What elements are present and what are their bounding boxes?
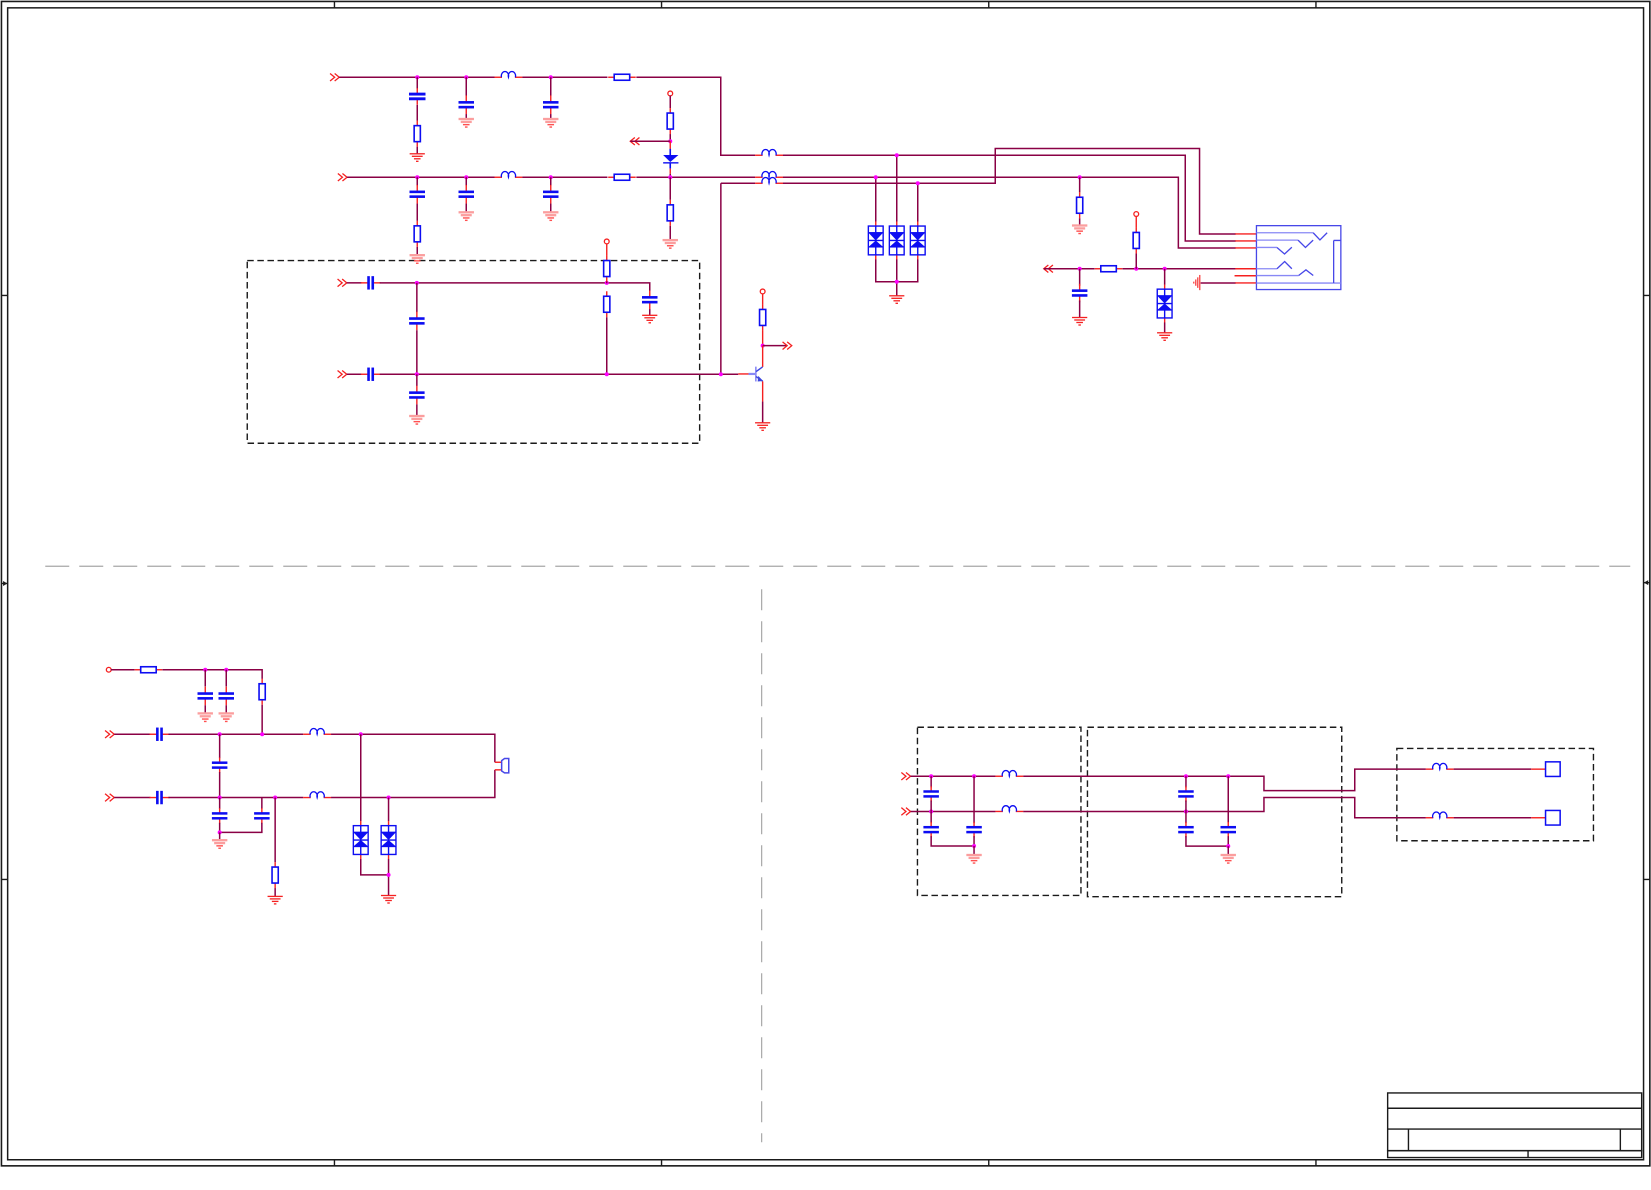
junction xyxy=(1078,267,1082,271)
ground GS6 xyxy=(663,239,678,249)
junction xyxy=(549,175,553,179)
wire C3 to ground xyxy=(550,114,552,118)
wire cap C5 stub xyxy=(465,177,467,186)
wire R15 to ground xyxy=(274,888,276,896)
junction xyxy=(1184,774,1188,778)
ground GS2 xyxy=(543,118,558,128)
port P11 xyxy=(901,808,910,816)
inductor L10 xyxy=(995,806,1023,812)
section divider vertical xyxy=(761,589,763,1142)
wire cap C25 column xyxy=(1227,776,1229,823)
wire cap C10 stub xyxy=(416,283,418,312)
junction xyxy=(1078,175,1082,179)
port P2 input xyxy=(338,173,347,181)
wire TVS to ground xyxy=(1164,322,1166,332)
wire tvs1 to rail xyxy=(876,259,897,281)
dashed box filter A xyxy=(247,261,699,444)
wire rowC vertical from base net xyxy=(720,183,722,374)
inductor L2 xyxy=(495,171,523,177)
resistor R3 xyxy=(608,174,636,180)
wire row1 to rowA corner xyxy=(636,77,755,155)
transistor Q1 xyxy=(749,367,764,382)
wire spk top stub xyxy=(495,761,502,763)
junction xyxy=(719,372,723,376)
inductor L4 xyxy=(755,171,783,177)
wire C21 to rail xyxy=(931,836,974,846)
wire cap C13 stub xyxy=(204,670,206,687)
wire R5 to node xyxy=(669,134,671,141)
wire br row2 c xyxy=(1454,817,1532,819)
wire boxA row2 a xyxy=(347,373,362,375)
wire tvs1 column xyxy=(875,177,877,221)
wire cap C20 stub xyxy=(930,776,932,787)
wire pin5 stub xyxy=(1235,275,1257,277)
capacitor C14 xyxy=(219,687,235,706)
capacitor C13 xyxy=(198,687,214,706)
pin VCC xyxy=(760,289,765,294)
wire boxA row1 b xyxy=(380,283,650,291)
capacitor C17 xyxy=(150,791,170,804)
inductor L1 xyxy=(495,71,523,77)
wire cap C2 stub xyxy=(465,77,467,95)
capacitor C16 xyxy=(212,757,228,772)
terminal T1 xyxy=(1546,762,1561,777)
wire C25 to rail xyxy=(1227,836,1229,846)
junction xyxy=(1134,267,1138,271)
resistor R1 xyxy=(608,74,636,80)
wire cap C23 stub xyxy=(1185,776,1187,787)
wire rowB pin stub xyxy=(1235,247,1256,249)
resistor R5 xyxy=(667,108,673,134)
junction xyxy=(415,75,419,79)
pin bias xyxy=(604,239,609,244)
junction xyxy=(387,873,391,877)
junction xyxy=(464,175,468,179)
wire tvs4 to rail xyxy=(361,859,389,875)
wire C12 to ground xyxy=(416,404,418,415)
resistor R9 xyxy=(1133,227,1139,253)
wire collector xyxy=(762,346,764,367)
junction xyxy=(415,175,419,179)
pin supply xyxy=(668,91,673,96)
wire C20 to row2 xyxy=(930,800,932,811)
wire rowA pin stub xyxy=(1235,240,1256,242)
wire row2 a xyxy=(347,176,495,178)
title block xyxy=(1388,1093,1642,1158)
junction xyxy=(415,372,419,376)
wire pin to R10 xyxy=(606,243,608,255)
wire node to TVS xyxy=(1164,269,1166,285)
dashed box filter B2 xyxy=(1087,727,1341,896)
pin pullup xyxy=(1134,212,1139,217)
wire p4 a xyxy=(1044,268,1095,270)
wire tvs5 column xyxy=(388,798,390,822)
wire br row2 b xyxy=(1023,797,1426,817)
frame center arrow right xyxy=(1644,580,1650,585)
port P5 xyxy=(338,279,347,287)
wire node to port xyxy=(763,345,788,347)
wire D1 to row2 xyxy=(669,174,671,178)
speaker LS1 xyxy=(502,759,509,773)
junction xyxy=(1226,844,1230,848)
frame zone ticks top xyxy=(334,1,1315,7)
wire C6 to ground xyxy=(550,204,552,212)
wire tvs3 column xyxy=(917,183,919,221)
resistor R11 xyxy=(604,291,610,317)
junction xyxy=(260,732,264,736)
chassis ground xyxy=(1193,275,1200,290)
port P6 xyxy=(338,370,347,378)
junction xyxy=(972,844,976,848)
ground GR3 xyxy=(1072,317,1087,326)
dashed box output B3 xyxy=(1397,748,1594,840)
wire cap C12 stub xyxy=(416,374,418,386)
junction xyxy=(1184,809,1188,813)
ground GS10 xyxy=(219,712,234,722)
resistor R6 xyxy=(667,200,673,226)
wire bl top xyxy=(162,670,262,679)
capacitor C3 xyxy=(543,95,559,114)
TVS D2 xyxy=(868,221,883,259)
capacitor C18 xyxy=(212,808,228,823)
capacitor C20 xyxy=(923,786,939,801)
wire tvs5 to ground xyxy=(388,859,390,895)
inductor L9 xyxy=(1426,763,1454,769)
wire cap C16 stub xyxy=(219,734,221,758)
junction xyxy=(1163,267,1167,271)
wire bl row2 a xyxy=(114,797,150,799)
wire bl row1 a xyxy=(114,733,150,735)
wire R7 to ground xyxy=(1079,218,1081,224)
junction xyxy=(218,732,222,736)
capacitor C23 xyxy=(1178,786,1194,801)
wire cap C4 stub xyxy=(416,177,418,186)
wire R12 to node xyxy=(762,330,764,345)
junction xyxy=(874,175,878,179)
wire cap C1 top stub xyxy=(416,77,418,89)
TVS D7 xyxy=(381,821,396,859)
junction xyxy=(273,796,277,800)
TVS D4 xyxy=(910,221,925,259)
wire pin to R12 xyxy=(762,293,764,304)
wire rowC xyxy=(721,182,755,184)
wire tvs2 column xyxy=(896,155,898,221)
capacitor C1 xyxy=(409,88,426,105)
junction xyxy=(218,796,222,800)
resistor R12 xyxy=(760,304,766,330)
port P1 input xyxy=(330,73,339,81)
junction xyxy=(929,809,933,813)
ground GS9 xyxy=(198,712,213,722)
ground GS3 xyxy=(410,254,425,264)
wire bl row1 b xyxy=(168,733,303,735)
wire pin to R13 xyxy=(111,669,135,671)
wire C24 to rail xyxy=(1186,836,1228,846)
wire C16 to row2 xyxy=(219,772,221,798)
wire tvs3 to rail xyxy=(897,259,918,281)
wire term2 stub xyxy=(1531,817,1545,819)
section divider horizontal xyxy=(45,565,1630,567)
junction xyxy=(668,139,672,143)
frame center arrow left xyxy=(1,581,7,586)
capacitor C22 xyxy=(966,822,982,837)
wire R14 to row1 xyxy=(261,705,263,735)
junction xyxy=(605,281,609,285)
resistor R8 xyxy=(1095,266,1123,272)
wire R9 to pin xyxy=(1135,216,1137,227)
ground GR4 xyxy=(1157,332,1172,341)
wire C4 to R4 xyxy=(416,204,418,221)
dashed box filter B1 xyxy=(917,727,1080,895)
ground GS1 xyxy=(459,118,474,128)
junction xyxy=(1226,774,1230,778)
wire rowB to R7 xyxy=(1079,177,1081,192)
ground GR7 xyxy=(268,896,283,905)
pin audio in xyxy=(106,667,111,672)
wire bl row2 b xyxy=(168,797,303,799)
wire node to R6 xyxy=(669,177,671,200)
wire row2 c xyxy=(636,176,755,178)
inductor L8 xyxy=(995,770,1023,776)
wire row1 b xyxy=(522,76,607,78)
terminal T2 xyxy=(1546,810,1561,825)
capacitor C25 xyxy=(1221,822,1237,837)
junction xyxy=(895,280,899,284)
junction xyxy=(359,732,363,736)
connector J1 xyxy=(1256,226,1340,290)
wire br row2 a xyxy=(911,810,996,812)
wire C9 to ground xyxy=(649,309,651,315)
capacitor C19 xyxy=(254,808,270,823)
diode D1 xyxy=(663,141,678,174)
capacitor C10 xyxy=(409,312,425,331)
ground GR1 xyxy=(410,153,425,162)
ground GS7 xyxy=(1072,224,1087,234)
wire row2 to R15 xyxy=(274,798,276,863)
wire cap C19 stub xyxy=(261,798,263,809)
wire spk bottom stub xyxy=(495,769,502,771)
capacitor C8 xyxy=(361,276,381,289)
wire port to node xyxy=(630,140,670,142)
wire C7 to ground xyxy=(1079,300,1081,317)
junction xyxy=(218,830,222,834)
junction xyxy=(203,668,207,672)
wire C10 to row2 xyxy=(416,330,418,374)
junction xyxy=(916,181,920,185)
ground GR8 xyxy=(381,895,396,904)
wire boxA row2 b xyxy=(380,373,739,375)
wire node to R9 xyxy=(1135,253,1137,268)
wire cap C18 stub xyxy=(219,798,221,809)
TVS D5 xyxy=(1157,285,1172,323)
wire C1 to R2 xyxy=(416,105,418,121)
wire R6 to ground xyxy=(669,226,671,239)
capacitor C12 xyxy=(409,386,425,405)
frame zone ticks bottom xyxy=(334,1160,1315,1166)
port P3 control xyxy=(630,137,639,145)
capacitor C6 xyxy=(543,185,559,204)
wire C23 to row2 xyxy=(1185,800,1187,811)
wire term1 stub xyxy=(1531,768,1545,770)
TVS D3 xyxy=(889,221,904,259)
capacitor C5 xyxy=(459,185,475,204)
wire R11 to row2 xyxy=(606,317,608,374)
resistor R15 xyxy=(272,862,278,888)
resistor R14 xyxy=(259,679,265,705)
junction xyxy=(549,75,553,79)
junction xyxy=(387,796,391,800)
wire pin6 xyxy=(1201,282,1236,284)
wire cap C21 stub xyxy=(930,811,932,823)
wire R2 to ground xyxy=(416,147,418,154)
wire bl row1 c xyxy=(331,734,495,762)
wire boxA row1 a xyxy=(347,282,362,284)
ground GR6 xyxy=(755,422,770,431)
wire row2 b xyxy=(522,176,607,178)
junction xyxy=(605,372,609,376)
junction xyxy=(464,75,468,79)
junction xyxy=(761,344,765,348)
port P9 xyxy=(105,794,114,802)
capacitor C21 xyxy=(923,822,939,837)
wire C2 to ground xyxy=(465,114,467,118)
capacitor C15 xyxy=(150,728,170,741)
wire p4 pin stub xyxy=(1235,268,1256,270)
frame zone ticks right xyxy=(1644,295,1650,879)
capacitor C9 xyxy=(642,290,658,309)
inductor L7 xyxy=(303,792,331,798)
junction xyxy=(415,281,419,285)
wire C13 to ground xyxy=(204,705,206,712)
resistor R10 xyxy=(604,256,610,282)
resistor R4 xyxy=(414,221,420,247)
junction xyxy=(668,175,672,179)
ground GS13 xyxy=(1221,854,1236,864)
wire C5 to ground xyxy=(465,204,467,212)
wire C19 to rail xyxy=(220,823,262,833)
wire rowC pin stub xyxy=(1235,233,1256,235)
junction xyxy=(895,153,899,157)
junction xyxy=(224,668,228,672)
capacitor C7 xyxy=(1072,284,1088,303)
wire C18 to rail xyxy=(219,823,221,833)
TVS D6 xyxy=(353,821,368,859)
wire cap C6 stub xyxy=(550,177,552,186)
wire base stub xyxy=(738,373,749,375)
capacitor C4 xyxy=(410,185,426,204)
wire tvs2 to ground xyxy=(896,259,898,295)
junction xyxy=(929,774,933,778)
frame zone ticks left xyxy=(1,295,7,879)
wire cap C22 column xyxy=(973,776,975,823)
capacitor C24 xyxy=(1178,822,1194,837)
wire C14 to ground xyxy=(225,705,227,712)
capacitor C11 xyxy=(361,368,381,381)
wire br row1 c xyxy=(1454,768,1532,770)
wire tvs4 column xyxy=(360,734,362,821)
inductor L3 xyxy=(755,149,783,155)
wire br row1 b xyxy=(1023,769,1426,791)
ground GR2 xyxy=(889,295,904,304)
wire rail1 to ground xyxy=(973,846,975,854)
wire cap C7 stub xyxy=(1079,269,1081,286)
wire cap C24 stub xyxy=(1185,811,1187,823)
wire rail2 to ground xyxy=(1227,846,1229,854)
inductor L11 xyxy=(1426,812,1454,818)
wire pin to R5 xyxy=(669,95,671,108)
ground GR5 xyxy=(642,315,657,324)
wire br row1 a xyxy=(911,775,996,777)
resistor R2 xyxy=(414,121,420,147)
ground GS5 xyxy=(543,211,558,221)
capacitor C2 xyxy=(459,95,475,114)
ground GS12 xyxy=(966,854,981,864)
wire rowC crossover xyxy=(783,148,1236,234)
wire rowA xyxy=(783,155,1236,241)
ground GS4 xyxy=(459,211,474,221)
wire row1 a xyxy=(339,76,494,78)
wire emitter to ground xyxy=(762,402,764,423)
wire C22 to rail xyxy=(973,836,975,846)
wire cap C14 stub xyxy=(225,670,227,687)
wire R4 to ground xyxy=(416,247,418,255)
ground GS11 xyxy=(212,839,227,849)
wire p4 b xyxy=(1122,268,1235,270)
junction xyxy=(972,774,976,778)
wire R10 node xyxy=(606,282,608,284)
wire bl row2 c xyxy=(331,770,495,798)
wire cap C3 stub xyxy=(550,77,552,95)
wire pin6 stub xyxy=(1235,282,1256,284)
wire rowB xyxy=(783,177,1236,248)
port P10 xyxy=(901,772,910,780)
inductor L6 xyxy=(303,728,331,734)
port P7 output xyxy=(783,342,792,350)
wire emitter xyxy=(762,381,764,401)
inductor L5 xyxy=(755,177,783,183)
port P4 xyxy=(1044,265,1053,273)
port P8 xyxy=(105,730,114,738)
wire rail to ground xyxy=(219,832,221,839)
ground GS8 xyxy=(409,415,424,425)
resistor R13 xyxy=(135,667,163,673)
resistor R7 xyxy=(1077,192,1083,218)
